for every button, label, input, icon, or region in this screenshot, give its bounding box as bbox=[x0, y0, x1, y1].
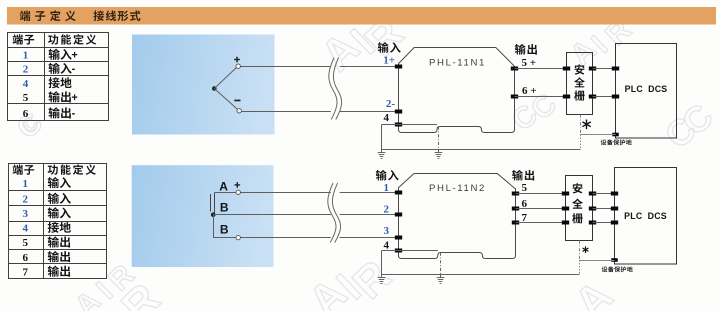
U3 pin label 4 bbox=[384, 239, 390, 251]
wires U3 to barrier bbox=[516, 194, 566, 223]
U3 pin label 6 bbox=[522, 198, 528, 210]
terminal definition table T1 bbox=[8, 33, 109, 121]
protective earth link (bottom) bbox=[580, 241, 615, 275]
title band bbox=[7, 7, 716, 25]
RTD lead A label bbox=[219, 179, 240, 193]
U1 terminal 1+ bbox=[395, 65, 402, 69]
U4 right terminals bbox=[589, 192, 596, 225]
U2 right terminals bbox=[589, 67, 596, 99]
TC - lead terminal bbox=[234, 100, 241, 113]
U1 terminal 6+ bbox=[511, 95, 518, 99]
RTD sensor RT1 bbox=[211, 193, 216, 218]
U1 pin label 4 bbox=[384, 112, 390, 124]
PLC terminals (top) bbox=[612, 67, 619, 137]
label 设备保护地 (top) bbox=[601, 139, 632, 145]
transmitter U3 PHL-11N2 body bbox=[399, 174, 516, 259]
sensor field box (top) bbox=[132, 35, 275, 135]
svg-text:A: A bbox=[219, 179, 228, 193]
wires barrier to PLC (top) bbox=[593, 69, 616, 97]
protective earth link (top) bbox=[581, 115, 616, 150]
U1 pin label 5+ bbox=[522, 57, 537, 69]
wire U1.6 to barrier bbox=[515, 96, 567, 98]
T2 pin 4 接地 bbox=[22, 222, 70, 235]
ground symbol G1 bbox=[378, 150, 386, 159]
cable break (top) bbox=[329, 58, 342, 120]
svg-text:6: 6 bbox=[23, 108, 29, 120]
ground symbol G4 with dash-dot lead bbox=[437, 253, 445, 284]
svg-text:+: + bbox=[71, 92, 77, 104]
T2 pin 6 输出 bbox=[22, 251, 70, 264]
RTD lead B label (middle) bbox=[220, 201, 229, 215]
svg-text:2: 2 bbox=[23, 64, 29, 76]
T1 pin 4 接地 bbox=[23, 77, 72, 90]
svg-text:-: - bbox=[72, 63, 76, 75]
svg-text:5: 5 bbox=[22, 237, 28, 249]
svg-text:6: 6 bbox=[22, 252, 28, 264]
transmitter U1 PHL-11N1 body bbox=[399, 48, 515, 133]
U2 left terminals bbox=[563, 67, 570, 99]
U3 pin label 1 bbox=[384, 182, 390, 194]
T2 pin 3 输入 bbox=[22, 207, 70, 220]
wire 1+ right segment bbox=[340, 66, 399, 68]
svg-text:PHL-11N2: PHL-11N2 bbox=[429, 183, 486, 194]
U3 right terminals 5,6,7 bbox=[512, 192, 519, 225]
wire 2- left segment bbox=[241, 111, 330, 113]
thermocouple TC junction bbox=[212, 68, 237, 110]
svg-text:3: 3 bbox=[384, 225, 390, 237]
PLC terminals (bottom) bbox=[611, 192, 618, 262]
svg-text:B: B bbox=[220, 201, 229, 215]
svg-text:4: 4 bbox=[384, 239, 390, 251]
PLC DCS box (top) bbox=[616, 44, 677, 139]
svg-text:7: 7 bbox=[22, 266, 28, 278]
svg-text:1: 1 bbox=[384, 182, 390, 194]
svg-text:-: - bbox=[72, 108, 76, 120]
U3 pin label 2 bbox=[384, 204, 390, 216]
wire 1 right segment bbox=[340, 192, 399, 194]
U1 terminal 4 bbox=[395, 123, 402, 127]
sensor field box (bottom) bbox=[132, 165, 274, 267]
U1 terminal 2- bbox=[395, 110, 402, 114]
wire B middle left segment bbox=[213, 214, 331, 216]
T1 pin 5 输出+ bbox=[23, 91, 78, 104]
svg-text:PLC DCS: PLC DCS bbox=[625, 84, 668, 94]
RTD terminal circle B lower bbox=[236, 235, 240, 239]
U4 left terminals bbox=[562, 192, 569, 225]
label 设备保护地 (bottom) bbox=[602, 266, 633, 272]
TC + lead terminal bbox=[234, 57, 240, 69]
T2 pin 5 输出 bbox=[22, 236, 70, 249]
wire U1.5 to barrier bbox=[515, 68, 567, 70]
svg-text:PHL-11N1: PHL-11N1 bbox=[429, 57, 486, 68]
terminal definition table T2 bbox=[9, 164, 107, 279]
T2 pin 1 输入 bbox=[22, 177, 70, 190]
svg-text:2-: 2- bbox=[386, 98, 396, 110]
T1 pin 1 输入+ bbox=[23, 49, 78, 62]
U3 pin label 3 bbox=[384, 225, 390, 237]
svg-text:2: 2 bbox=[384, 204, 390, 216]
wires barrier to PLC (bottom) bbox=[593, 194, 615, 223]
cable break (bottom) bbox=[328, 183, 341, 243]
U3 label 输出 bbox=[512, 170, 534, 181]
wire U1.4 to ground bus bbox=[382, 125, 438, 150]
svg-text:4: 4 bbox=[22, 223, 28, 235]
ground bus (top) bbox=[382, 149, 581, 151]
wire B lower left segment bbox=[213, 215, 331, 238]
asterisk note (bottom) bbox=[583, 246, 589, 253]
safety barrier U4 安全栅 (bottom) bbox=[566, 176, 593, 241]
U3 pin label 5 bbox=[522, 182, 528, 194]
PLC DCS box (bottom) bbox=[615, 168, 677, 265]
wire 2- right segment bbox=[340, 111, 399, 113]
ground bus (bottom) bbox=[382, 274, 580, 276]
U1 terminal 5+ bbox=[511, 67, 518, 71]
RTD lead B label (lower) bbox=[220, 223, 229, 237]
svg-text:PLC DCS: PLC DCS bbox=[624, 211, 667, 221]
svg-text:6 +: 6 + bbox=[522, 85, 537, 97]
T2 pin 7 输出 bbox=[22, 266, 70, 279]
T2 pin 2 输入 bbox=[22, 193, 70, 206]
svg-text:2: 2 bbox=[22, 194, 28, 206]
svg-text:5: 5 bbox=[522, 182, 528, 194]
U1 pin label 6+ bbox=[522, 85, 537, 97]
wire A left segment bbox=[214, 192, 330, 194]
U1 pin label 1+ bbox=[383, 55, 395, 67]
wire 1+ left segment bbox=[240, 66, 330, 68]
wire 3 right segment bbox=[340, 237, 399, 239]
U1 pin label 2- bbox=[386, 98, 396, 110]
RTD terminal circle A bbox=[236, 190, 240, 194]
safety barrier U2 安全栅 (top) bbox=[567, 53, 593, 115]
svg-text:5 +: 5 + bbox=[522, 57, 537, 69]
wire 2 right segment bbox=[340, 214, 399, 216]
U1 label 输出 bbox=[515, 44, 537, 55]
ground symbol G2 with dash-dot lead bbox=[435, 127, 443, 159]
wire U3.4 to ground bus bbox=[382, 251, 438, 275]
svg-text:4: 4 bbox=[23, 78, 29, 90]
svg-text:1: 1 bbox=[23, 50, 29, 62]
svg-text:1+: 1+ bbox=[383, 55, 395, 67]
ground symbol G3 bbox=[378, 275, 386, 284]
U3 left terminals 1,2,3,4 bbox=[395, 191, 402, 253]
U1 label 输入 bbox=[378, 42, 401, 53]
svg-text:4: 4 bbox=[384, 112, 390, 124]
svg-text:+: + bbox=[71, 49, 77, 61]
svg-text:1: 1 bbox=[22, 178, 28, 190]
T1 pin 6 输出- bbox=[23, 107, 76, 120]
svg-text:B: B bbox=[220, 223, 229, 237]
asterisk note (top) bbox=[582, 120, 590, 130]
U3 label 输入 bbox=[376, 170, 399, 181]
U3 pin label 7 bbox=[522, 212, 528, 224]
svg-text:5: 5 bbox=[23, 92, 29, 104]
svg-text:3: 3 bbox=[22, 208, 28, 220]
T1 pin 2 输入- bbox=[23, 63, 76, 76]
